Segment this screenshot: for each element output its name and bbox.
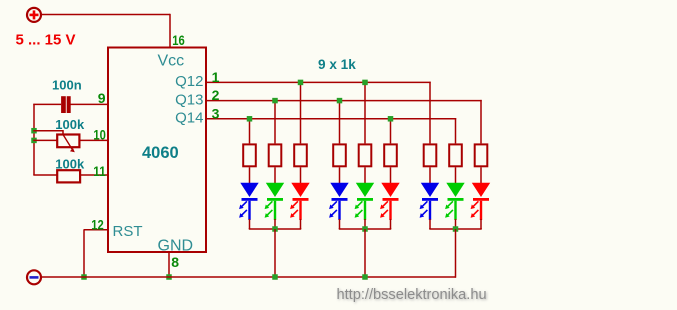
wire drop col5 (390, 119, 392, 144)
resistor R8 1k (449, 144, 462, 166)
pin number 16 (172, 32, 185, 48)
svg-text:GND: GND (158, 237, 194, 254)
wire Q12 bus (207, 82, 431, 144)
capacitor C1 100n (61, 96, 71, 113)
wire group3 cathode bus (429, 227, 481, 230)
LED D1 blue (239, 167, 259, 229)
junction group2 rail (362, 274, 368, 280)
svg-text:100k: 100k (55, 117, 85, 132)
svg-text:100n: 100n (52, 78, 82, 93)
junction group1 rail (272, 274, 278, 280)
wire + to pin16 corner (41, 14, 170, 48)
svg-text:Q14: Q14 (175, 110, 203, 127)
LED D6 red (380, 167, 400, 229)
node A vertical wire (33, 104, 35, 175)
wire group2 down (364, 229, 366, 278)
IC name RST (113, 223, 143, 240)
plus terminal (+) supply (27, 8, 41, 22)
label 100k pot (55, 117, 85, 132)
wire drop col0 (249, 119, 251, 144)
LED D7 blue (420, 167, 440, 229)
junction bus col2 (298, 80, 304, 86)
op IC U1 4060 body (108, 48, 206, 253)
svg-text:http://bsselektronika.hu: http://bsselektronika.hu (337, 287, 487, 303)
junction bus col1 (272, 98, 278, 104)
svg-text:9 x 1k: 9 x 1k (318, 56, 356, 72)
wire group2 cathode bus (339, 227, 391, 230)
pin number 10 (93, 127, 106, 143)
junction bus col0 (247, 116, 253, 122)
pin number 3 (212, 105, 220, 121)
IC name Vcc (158, 53, 185, 70)
svg-text:8: 8 (171, 254, 179, 270)
resistor R1 1k (243, 144, 256, 166)
wire res right (81, 174, 108, 176)
svg-text:Vcc: Vcc (158, 53, 185, 70)
svg-text:2: 2 (212, 87, 220, 103)
svg-text:100k: 100k (55, 156, 85, 171)
svg-text:RST: RST (113, 223, 143, 240)
junction group2 top (362, 226, 368, 232)
IC value 4060 (142, 144, 179, 162)
IC name Q12 (175, 73, 203, 90)
watermark text (337, 287, 488, 304)
LED D2 green (265, 167, 285, 229)
LED D9 red (471, 167, 491, 229)
wire RST pin12 (84, 229, 108, 277)
wire group1 cathode bus (249, 227, 301, 230)
wire Q14 bus (207, 118, 456, 143)
resistor R3 1k (294, 144, 307, 166)
svg-text:5 ... 15 V: 5 ... 15 V (16, 32, 76, 49)
LED D3 red (290, 167, 310, 229)
pin number 12 (91, 216, 104, 232)
resistor R5 1k (359, 144, 372, 166)
wire Q13 bus (207, 100, 482, 143)
LED D5 green (355, 167, 375, 229)
IC name Q14 (175, 110, 203, 127)
wire pot left (33, 139, 57, 141)
svg-text:4060: 4060 (142, 144, 179, 162)
svg-text:10: 10 (93, 127, 106, 143)
LED D8 green (445, 167, 465, 229)
pin number 11 (93, 163, 106, 179)
label 100k res (55, 156, 85, 171)
ground rail wire (41, 276, 456, 278)
svg-text:16: 16 (172, 32, 185, 48)
wire wiper (33, 130, 63, 135)
resistor R7 1k (424, 144, 437, 166)
pin number 9 (98, 90, 106, 106)
svg-text:12: 12 (91, 216, 104, 232)
LED D4 blue (329, 167, 349, 229)
potentiometer P1 100k (57, 135, 79, 153)
wire group1 down (274, 229, 276, 278)
label 5 ... 15 V (16, 32, 76, 49)
junction wiper (31, 128, 37, 134)
svg-text:9: 9 (98, 90, 106, 106)
resistor R2 1k (269, 144, 282, 166)
junction bus col3 (337, 98, 343, 104)
wire pot right (80, 139, 109, 141)
svg-text:Q12: Q12 (175, 73, 203, 90)
minus terminal (-) supply (27, 270, 41, 284)
wire drop col3 (339, 101, 341, 144)
wire drop col4 (364, 82, 366, 143)
pin number 1 (212, 69, 220, 85)
capacitor C1 wires (33, 103, 108, 105)
svg-text:3: 3 (212, 105, 220, 121)
label 9 x 1k (318, 56, 356, 72)
label 100n (52, 78, 82, 93)
resistor R6 1k (384, 144, 397, 166)
junction bus col5 (388, 116, 394, 122)
svg-text:Q13: Q13 (175, 91, 203, 108)
IC name Q13 (175, 91, 203, 108)
resistor R4 1k (333, 144, 346, 166)
wire drop col1 (274, 101, 276, 144)
wire group3 down (455, 229, 457, 278)
svg-text:11: 11 (93, 163, 106, 179)
wire res left (33, 174, 57, 176)
junction group3 top (453, 226, 459, 232)
wire drop col2 (300, 82, 302, 143)
wire GND pin8 (168, 253, 170, 278)
junction pot left (31, 138, 37, 144)
junction RST-rail (81, 274, 87, 280)
pin number 2 (212, 87, 220, 103)
resistor R10 100k (57, 170, 80, 182)
junction group1 top (272, 226, 278, 232)
svg-text:1: 1 (212, 69, 220, 85)
junction bus col4 (362, 80, 368, 86)
junction GND-rail (166, 274, 172, 280)
IC name GND (158, 237, 194, 254)
resistor R9 1k (475, 144, 488, 166)
pin number 8 (171, 254, 179, 270)
